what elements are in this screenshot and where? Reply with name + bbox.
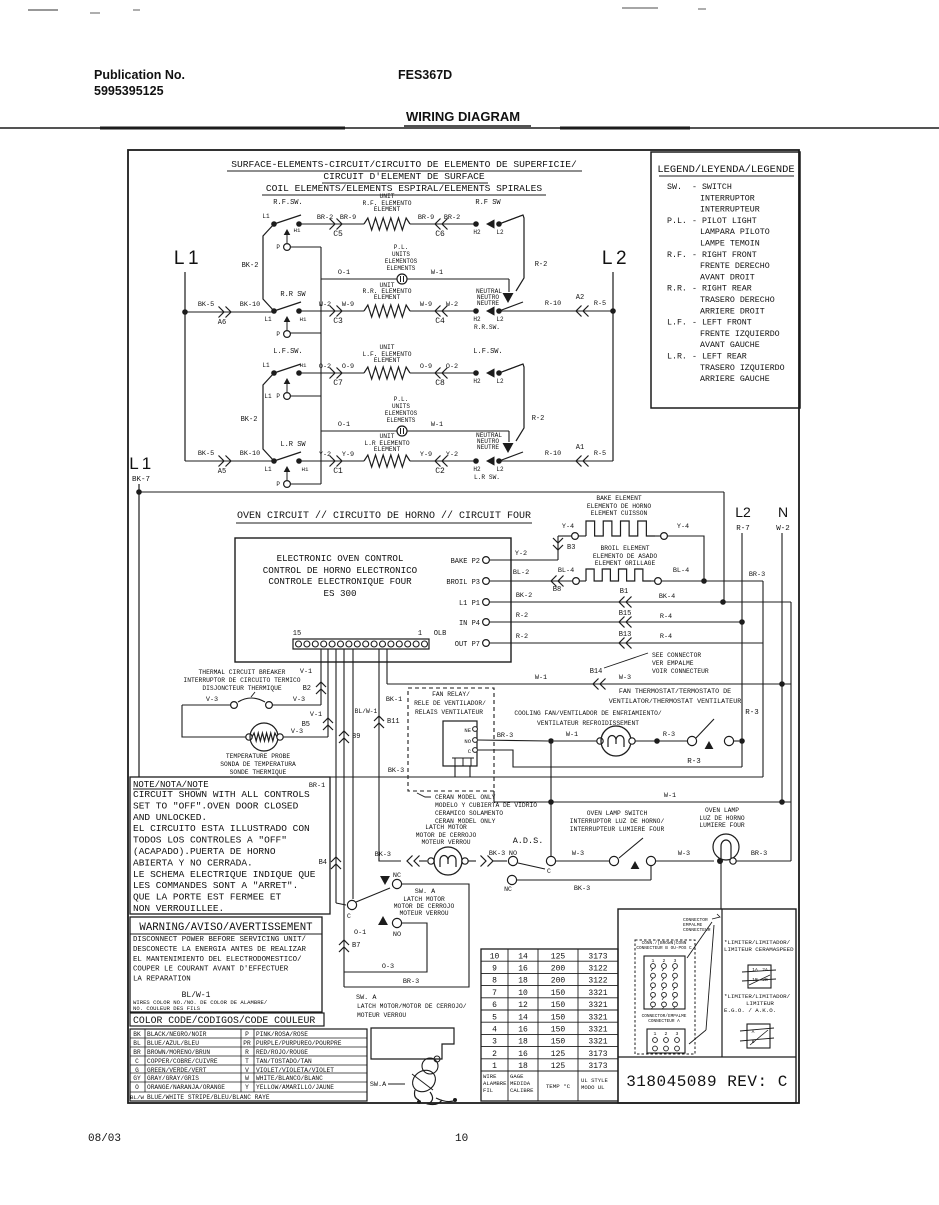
svg-text:ELEMENT: ELEMENT xyxy=(374,446,401,453)
svg-text:L 1: L 1 xyxy=(129,454,151,473)
svg-text:QUE LA PORTE EST FERMEE ET: QUE LA PORTE EST FERMEE ET xyxy=(133,892,282,903)
wire rail N/W-2 (x=782) xyxy=(781,533,783,802)
svg-text:NC: NC xyxy=(393,872,401,880)
wire R-10/R-5 row R.R. xyxy=(499,294,613,317)
svg-text:R-10: R-10 xyxy=(545,450,561,458)
connector B pin block xyxy=(644,956,685,1009)
svg-text:R-5: R-5 xyxy=(594,450,606,458)
wire O-1 to latch switch NO (x=344) xyxy=(339,649,366,987)
svg-text:INTERRUPTOR DE CIRCUITO TERMIC: INTERRUPTOR DE CIRCUITO TERMICO xyxy=(183,677,300,684)
wire Y-9/Y-2 from element L.R. UNIT xyxy=(410,451,476,476)
wire BR-3 lamp to rail xyxy=(736,850,791,861)
svg-text:R-2: R-2 xyxy=(532,415,545,423)
svg-text:R-2: R-2 xyxy=(516,612,528,620)
svg-text:CALIBRE: CALIBRE xyxy=(510,1087,534,1094)
svg-text:BK-3: BK-3 xyxy=(388,767,404,775)
svg-text:R.R.SW.: R.R.SW. xyxy=(474,324,500,331)
svg-text:3321: 3321 xyxy=(588,1026,607,1035)
svg-text:10: 10 xyxy=(455,1133,468,1145)
svg-text:H1: H1 xyxy=(302,466,309,473)
wire W-1/W-3 fan thermostat line (y=684) xyxy=(387,674,791,690)
svg-text:BK-4: BK-4 xyxy=(659,593,675,601)
EOC terminal L1 P1 xyxy=(459,599,489,608)
svg-text:UNIT: UNIT xyxy=(379,344,394,351)
svg-text:R.F.: R.F. xyxy=(667,251,687,260)
wire P to vertical (circuit2) xyxy=(290,395,321,397)
svg-text:C3: C3 xyxy=(333,317,343,326)
junction fan switch / L2 rail xyxy=(739,738,745,744)
svg-text:3173: 3173 xyxy=(588,1050,607,1059)
svg-text:OLB: OLB xyxy=(434,630,447,638)
label latch motor xyxy=(416,824,477,846)
svg-text:B7: B7 xyxy=(352,942,360,950)
svg-text:R-4: R-4 xyxy=(660,633,672,641)
wire V-1 to thermal breaker (x=321) xyxy=(300,649,326,705)
svg-text:ELEMENTS: ELEMENTS xyxy=(387,265,416,272)
svg-text:O-1: O-1 xyxy=(338,269,350,277)
svg-text:B13: B13 xyxy=(619,631,632,639)
svg-text:H1: H1 xyxy=(300,316,307,323)
svg-text:BL-4: BL-4 xyxy=(558,567,574,575)
svg-text:BK-3: BK-3 xyxy=(574,885,590,893)
svg-text:E.G.O. / A.K.O.: E.G.O. / A.K.O. xyxy=(724,1007,776,1014)
junction R-4 / L2 rail xyxy=(739,619,745,625)
svg-text:H1: H1 xyxy=(294,227,301,234)
svg-text:*LIMITER/LIMITADOR/: *LIMITER/LIMITADOR/ xyxy=(724,993,791,1000)
svg-text:C1: C1 xyxy=(333,467,343,476)
svg-text:AVANT DROIT: AVANT DROIT xyxy=(700,273,755,282)
svg-text:LIMITEUR CERAMASPEED: LIMITEUR CERAMASPEED xyxy=(724,946,794,953)
wire BK-2 jog L.F. to L.R. xyxy=(241,373,274,461)
svg-text:200: 200 xyxy=(551,977,566,986)
svg-text:W-3: W-3 xyxy=(572,850,584,858)
terminal L2 / R-7 (mid right) xyxy=(735,504,751,533)
junction W-1 / N rail xyxy=(779,799,785,805)
svg-text:V-3: V-3 xyxy=(206,696,218,704)
svg-text:BK: BK xyxy=(133,1031,141,1038)
color code table xyxy=(130,1029,367,1101)
svg-text:MOTEUR VERROU: MOTEUR VERROU xyxy=(399,910,448,917)
svg-text:MODO UL: MODO UL xyxy=(581,1084,605,1091)
wire O-1 pilot circuit1 xyxy=(321,269,397,279)
svg-text:5995395125: 5995395125 xyxy=(94,84,164,98)
svg-text:V-1: V-1 xyxy=(310,711,322,719)
wire R-10/R-5 row L.R. xyxy=(499,444,613,467)
oven lamp DS1 xyxy=(713,834,739,864)
svg-text:UNIT: UNIT xyxy=(379,433,394,440)
svg-text:C: C xyxy=(347,913,351,920)
junction L1-feed / BK-4 xyxy=(720,599,726,605)
svg-text:OVEN LAMP: OVEN LAMP xyxy=(705,807,739,814)
svg-text:ELECTRONIC OVEN CONTROL: ELECTRONIC OVEN CONTROL xyxy=(277,553,404,564)
oven circuit title xyxy=(236,510,532,523)
svg-text:B15: B15 xyxy=(619,610,632,618)
svg-text:FRENTE IZQUIERDO: FRENTE IZQUIERDO xyxy=(700,330,780,339)
note ceran model only xyxy=(417,793,537,825)
svg-text:TEMP °C: TEMP °C xyxy=(546,1083,571,1090)
A.D.S. switch xyxy=(508,836,555,875)
svg-text:NO. COULEUR DES FILS: NO. COULEUR DES FILS xyxy=(133,1005,201,1012)
svg-text:FAN RELAY/: FAN RELAY/ xyxy=(432,691,470,698)
EOC terminal BROIL P3 xyxy=(446,578,489,587)
svg-text:MODELO Y CUBIERTA DE VIDRIO: MODELO Y CUBIERTA DE VIDRIO xyxy=(435,802,537,809)
svg-text:RELE DE VENTILADOR/: RELE DE VENTILADOR/ xyxy=(414,700,486,707)
svg-text:3173: 3173 xyxy=(588,952,607,961)
svg-text:BL-2: BL-2 xyxy=(513,569,529,577)
pilot light P.L. circuit1 xyxy=(397,274,407,284)
svg-text:BL-4: BL-4 xyxy=(673,567,689,575)
svg-text:ELEMENT CUISSON: ELEMENT CUISSON xyxy=(591,510,648,517)
svg-text:ARRIERE DROIT: ARRIERE DROIT xyxy=(700,307,765,316)
svg-text:ORANGE/NARANJA/ORANGE: ORANGE/NARANJA/ORANGE xyxy=(147,1084,225,1091)
wire W-2/W-9 to element R.R. UNIT row y=311 xyxy=(299,301,364,326)
connector detail box xyxy=(618,909,796,1103)
svg-text:W-3: W-3 xyxy=(678,850,690,858)
wire BR-2/BR-9 to element R.F. UNIT row y=224 xyxy=(299,214,364,239)
switch R.R SW (left) xyxy=(271,291,306,338)
junction fan line / W-1 drop xyxy=(548,738,554,744)
svg-text:6: 6 xyxy=(492,1001,497,1010)
svg-text:150: 150 xyxy=(551,1026,566,1035)
svg-text:150: 150 xyxy=(551,989,566,998)
A.D.S. NC contact xyxy=(504,875,517,893)
svg-text:TRASERO IZQUIERDO: TRASERO IZQUIERDO xyxy=(700,364,785,373)
svg-text:PURPLE/PURPUREO/POURPRE: PURPLE/PURPUREO/POURPRE xyxy=(256,1040,342,1047)
element R.R. UNIT (resistor) xyxy=(364,305,410,317)
svg-text:BLUE/WHITE STRIPE/BLEU/BLANC R: BLUE/WHITE STRIPE/BLEU/BLANC RAYE xyxy=(147,1094,270,1101)
wire L1 feed to EOC (y=492) xyxy=(139,491,724,493)
svg-text:Y-2: Y-2 xyxy=(319,451,331,459)
wire BK-5/BK-10 row2 feed (L.R.) xyxy=(185,450,274,476)
svg-text:BK-3: BK-3 xyxy=(489,850,505,858)
svg-text:MOTOR DE CERROJO: MOTOR DE CERROJO xyxy=(416,832,477,839)
terminal L1 lower (BK-7) xyxy=(129,454,151,484)
svg-text:L 1: L 1 xyxy=(174,248,198,269)
junction bake/broil node xyxy=(701,578,707,584)
svg-text:CONTROLE ELECTRONIQUE FOUR: CONTROLE ELECTRONIQUE FOUR xyxy=(268,576,412,587)
svg-text:YELLOW/AMARILLO/JAUNE: YELLOW/AMARILLO/JAUNE xyxy=(256,1084,334,1091)
svg-text:L1: L1 xyxy=(264,466,272,473)
junction L1 rail / top feed xyxy=(136,489,142,495)
svg-text:B8: B8 xyxy=(553,586,561,594)
svg-text:H2: H2 xyxy=(473,316,481,323)
svg-text:BL/W-1: BL/W-1 xyxy=(355,708,378,715)
svg-text:W-9: W-9 xyxy=(342,301,354,309)
svg-text:TODOS LOS CONTROLES A "OFF": TODOS LOS CONTROLES A "OFF" xyxy=(133,835,287,846)
svg-text:UNITS: UNITS xyxy=(392,251,410,258)
wire Y-2 from BAKE P2 xyxy=(489,536,558,560)
svg-text:200: 200 xyxy=(551,965,566,974)
warning box xyxy=(130,917,322,1012)
wire relay coil pins to BK-3 xyxy=(455,766,470,777)
element R.F. UNIT (resistor) xyxy=(364,218,410,230)
label L1 H1 row LF xyxy=(262,362,307,369)
svg-text:UNIT: UNIT xyxy=(379,193,394,200)
svg-text:UL STYLE: UL STYLE xyxy=(581,1077,608,1084)
svg-text:LATCH MOTOR: LATCH MOTOR xyxy=(403,896,445,903)
wire BR-3 NC loop xyxy=(344,884,469,987)
svg-text:TRASERO DERECHO: TRASERO DERECHO xyxy=(700,296,775,305)
svg-text:Y-9: Y-9 xyxy=(420,451,432,459)
svg-text:OVEN LAMP SWITCH: OVEN LAMP SWITCH xyxy=(587,810,648,817)
svg-text:BK-2: BK-2 xyxy=(241,416,258,424)
svg-text:Y-4: Y-4 xyxy=(562,523,574,531)
wire W-1 to fan motor xyxy=(554,731,597,741)
svg-text:ES 300: ES 300 xyxy=(323,588,356,599)
svg-text:*LIMITER/LIMITADOR/: *LIMITER/LIMITADOR/ xyxy=(724,939,791,946)
svg-text:H2: H2 xyxy=(473,378,481,385)
label bake element xyxy=(587,495,651,517)
svg-text:P: P xyxy=(276,331,280,338)
connector pointer lines xyxy=(687,922,714,1044)
svg-text:16: 16 xyxy=(518,1026,528,1035)
svg-text:AND UNLOCKED.: AND UNLOCKED. xyxy=(133,812,207,823)
svg-text:UNITS: UNITS xyxy=(392,403,410,410)
wire lamp to connector box xyxy=(720,861,722,909)
svg-text:L2: L2 xyxy=(496,378,504,385)
svg-text:MEDIDA: MEDIDA xyxy=(510,1080,531,1087)
label L1 H1 row LR xyxy=(264,466,309,473)
svg-text:R.R.: R.R. xyxy=(667,285,687,294)
main diagram border xyxy=(128,150,799,1103)
svg-text:ABIERTA Y NO CERRADA.: ABIERTA Y NO CERRADA. xyxy=(133,857,253,868)
svg-text:LATCH MOTOR: LATCH MOTOR xyxy=(425,824,467,831)
svg-text:ELEMENT: ELEMENT xyxy=(374,357,401,364)
svg-text:V-3: V-3 xyxy=(291,728,303,736)
svg-text:W-2: W-2 xyxy=(776,525,790,533)
note box xyxy=(130,777,330,914)
svg-text:WHITE/BLANCO/BLANC: WHITE/BLANCO/BLANC xyxy=(256,1075,323,1082)
svg-text:BR-2: BR-2 xyxy=(317,214,333,222)
svg-text:R.R SW: R.R SW xyxy=(280,291,306,299)
svg-text:W: W xyxy=(245,1075,249,1082)
svg-text:THERMAL CIRCUIT BREAKER: THERMAL CIRCUIT BREAKER xyxy=(199,669,286,676)
svg-text:P: P xyxy=(276,481,280,488)
svg-text:CERAN MODEL ONLY: CERAN MODEL ONLY xyxy=(435,794,496,801)
svg-text:AVANT GAUCHE: AVANT GAUCHE xyxy=(700,341,760,350)
svg-text:B14: B14 xyxy=(590,668,603,676)
svg-text:5: 5 xyxy=(492,1013,497,1022)
svg-text:BR-3: BR-3 xyxy=(751,850,767,858)
svg-text:DESCONECTE LA ENERGIA ANTES DE: DESCONECTE LA ENERGIA ANTES DE REALIZAR xyxy=(133,946,307,954)
svg-text:B4: B4 xyxy=(319,859,327,867)
label limiter ceramaspeed xyxy=(724,939,794,953)
element L.F. UNIT (resistor) xyxy=(364,367,410,379)
svg-text:NON VERROUILLEE.: NON VERROUILLEE. xyxy=(133,903,224,914)
svg-text:ELEMENTO DE HORNO: ELEMENTO DE HORNO xyxy=(587,503,651,510)
svg-text:Y-9: Y-9 xyxy=(342,451,354,459)
svg-text:SW. A: SW. A xyxy=(415,888,436,896)
svg-text:Publication No.: Publication No. xyxy=(94,68,185,82)
svg-text:GAGE: GAGE xyxy=(510,1073,524,1080)
svg-text:NEUTRE: NEUTRE xyxy=(477,444,500,451)
svg-text:B2: B2 xyxy=(303,685,311,693)
latch motor M2 xyxy=(428,847,468,875)
svg-text:W-3: W-3 xyxy=(619,674,631,682)
svg-text:IN P4: IN P4 xyxy=(459,620,480,628)
wire BR-3 relay NO to fan line xyxy=(478,732,548,741)
svg-text:OUT P7: OUT P7 xyxy=(455,641,480,649)
svg-text:- PILOT LIGHT: - PILOT LIGHT xyxy=(692,217,757,226)
svg-text:R-4: R-4 xyxy=(660,613,672,621)
svg-text:O-2: O-2 xyxy=(319,363,331,371)
label L1 H1 row RR xyxy=(264,316,307,323)
svg-text:INTERRUPTEUR: INTERRUPTEUR xyxy=(700,206,760,215)
svg-text:O-9: O-9 xyxy=(420,363,432,371)
svg-text:3122: 3122 xyxy=(588,977,607,986)
svg-text:C5: C5 xyxy=(333,230,343,239)
svg-text:B: B xyxy=(752,1039,755,1045)
svg-text:L2: L2 xyxy=(496,316,504,323)
svg-text:P: P xyxy=(245,1031,249,1038)
svg-text:16: 16 xyxy=(518,965,528,974)
wire R-2/R-4 from OUT P7 xyxy=(489,631,763,649)
svg-text:LATCH MOTOR/MOTOR DE CERROJO/: LATCH MOTOR/MOTOR DE CERROJO/ xyxy=(357,1003,467,1010)
svg-text:3321: 3321 xyxy=(588,1001,607,1010)
svg-text:LA REPARATION: LA REPARATION xyxy=(133,976,191,984)
svg-text:L.F.SW.: L.F.SW. xyxy=(473,348,502,356)
wire BK-2/BK-4 from L1 P1 xyxy=(489,588,791,608)
svg-text:10: 10 xyxy=(518,989,528,998)
svg-text:A1: A1 xyxy=(576,444,584,452)
svg-text:G: G xyxy=(135,1067,139,1074)
wire O-9/O-2 from element L.F. UNIT xyxy=(410,363,476,388)
label broil element xyxy=(593,545,657,567)
svg-text:R-3: R-3 xyxy=(745,709,759,717)
svg-text:WARNING/AVISO/AVERTISSEMENT: WARNING/AVISO/AVERTISSEMENT xyxy=(139,922,313,934)
svg-text:L.R.: L.R. xyxy=(667,353,687,362)
wire BR-9/BR-2 from element R.F. UNIT xyxy=(410,214,476,239)
svg-text:125: 125 xyxy=(551,952,566,961)
wire BR-1/BK-3 (y=777) xyxy=(130,767,763,777)
svg-text:R-2: R-2 xyxy=(535,261,548,269)
svg-text:2: 2 xyxy=(665,1031,668,1037)
svg-text:CONNECTEUR B OU-POS C: CONNECTEUR B OU-POS C xyxy=(636,946,692,951)
svg-text:R-3: R-3 xyxy=(663,731,675,739)
latch cam mechanism outline xyxy=(371,1028,454,1059)
switch L.F.SW. (left) xyxy=(271,348,303,400)
junction rail/row R.R. xyxy=(610,308,616,314)
svg-text:BROIL ELEMENT: BROIL ELEMENT xyxy=(600,545,649,552)
junction W-1/lamp feed drop xyxy=(548,799,554,805)
svg-text:SONDA DE TEMPERATURA: SONDA DE TEMPERATURA xyxy=(220,761,296,768)
svg-text:SONDE THERMIQUE: SONDE THERMIQUE xyxy=(230,769,287,776)
svg-text:W-1: W-1 xyxy=(431,269,443,277)
label connector A xyxy=(642,1014,687,1024)
wire BK-5/BK-10 row1 feed xyxy=(185,301,274,327)
switch R.F SW (right) xyxy=(473,199,523,236)
wire rail L2/R-7 (x=742) xyxy=(741,533,743,767)
neutral arrow circuit1 xyxy=(476,288,514,307)
label P.L. UNITS circuit1 xyxy=(385,244,418,272)
temperature probe RT1 xyxy=(220,723,328,776)
svg-text:P.L.: P.L. xyxy=(394,396,408,403)
wire P to vertical (circuit1 top) xyxy=(290,246,321,248)
EOC terminal BAKE P2 xyxy=(451,557,490,566)
wire BK-3 to latch motor xyxy=(375,851,427,867)
svg-text:BR-9: BR-9 xyxy=(418,214,434,222)
svg-text:C6: C6 xyxy=(435,230,445,239)
switch L.F.SW. (right) xyxy=(473,348,523,385)
svg-text:R-5: R-5 xyxy=(594,300,606,308)
svg-text:INTERRUPTEUR LUMIERE FOUR: INTERRUPTEUR LUMIERE FOUR xyxy=(570,826,665,833)
junction W-3 / N rail xyxy=(779,681,785,687)
svg-text:GRAY/GRAY/GRIS: GRAY/GRAY/GRIS xyxy=(147,1075,199,1082)
wire to latch switch C (x=336) xyxy=(319,649,346,905)
wire right rail L2 (x=613) xyxy=(612,272,614,461)
wire Y-2/Y-9 to element L.R. UNIT row y=461 xyxy=(299,451,364,476)
svg-text:LEGEND/LEYENDA/LEGENDE: LEGEND/LEYENDA/LEGENDE xyxy=(657,164,794,176)
svg-text:BAKE P2: BAKE P2 xyxy=(451,558,480,566)
svg-text:W-1: W-1 xyxy=(566,731,578,739)
svg-text:1: 1 xyxy=(492,1062,497,1071)
svg-text:CONNECTEUR A: CONNECTEUR A xyxy=(648,1019,680,1024)
svg-text:2A: 2A xyxy=(762,967,768,973)
svg-text:- LEFT FRONT: - LEFT FRONT xyxy=(692,319,752,328)
wire R-2 right rail circuit1 xyxy=(499,215,547,291)
svg-text:B3: B3 xyxy=(567,544,575,552)
svg-text:BLUE/AZUL/BLEU: BLUE/AZUL/BLEU xyxy=(147,1040,199,1047)
wire O-3 NO loop xyxy=(344,923,427,972)
svg-text:BR-9: BR-9 xyxy=(340,214,356,222)
svg-text:W-9: W-9 xyxy=(420,301,432,309)
svg-text:LAMPARA PILOTO: LAMPARA PILOTO xyxy=(700,228,770,237)
switch L.R SW (left) xyxy=(271,441,306,488)
wire W-1 feed to fan thermostat (x=387) xyxy=(386,649,388,684)
svg-text:BK-5: BK-5 xyxy=(198,301,214,309)
svg-text:L.F.: L.F. xyxy=(667,319,687,328)
svg-text:LUMIERE FOUR: LUMIERE FOUR xyxy=(699,822,745,829)
svg-text:R.F SW: R.F SW xyxy=(475,199,501,207)
svg-text:1: 1 xyxy=(654,1031,657,1037)
svg-text:14: 14 xyxy=(518,1013,528,1022)
svg-text:L2: L2 xyxy=(496,466,504,473)
svg-text:L1: L1 xyxy=(264,316,272,323)
broil element (square-wave) xyxy=(558,567,689,584)
svg-text:18: 18 xyxy=(518,977,528,986)
connector A pin block xyxy=(647,1029,685,1053)
svg-text:O-1: O-1 xyxy=(338,421,350,429)
svg-text:MOTEUR VERROU: MOTEUR VERROU xyxy=(421,839,470,846)
svg-text:L2: L2 xyxy=(735,504,751,520)
svg-text:SEE CONNECTOR: SEE CONNECTOR xyxy=(652,652,701,659)
svg-text:TEMPERATURE PROBE: TEMPERATURE PROBE xyxy=(226,753,290,760)
EOC terminal OUT P7 xyxy=(455,640,490,649)
label cooling fan xyxy=(514,710,662,727)
svg-text:BR-1: BR-1 xyxy=(309,782,325,790)
note text xyxy=(133,789,316,914)
svg-text:COIL ELEMENTS/ELEMENTS ESPIRAL: COIL ELEMENTS/ELEMENTS ESPIRAL/ELEMENTS … xyxy=(266,183,543,194)
svg-text:H2: H2 xyxy=(473,229,481,236)
wire BL/W-3 to latch switch (x=353) xyxy=(353,649,378,899)
svg-text:ALAMBRE: ALAMBRE xyxy=(483,1080,507,1087)
svg-text:INTERRUPTOR LUZ DE HORNO/: INTERRUPTOR LUZ DE HORNO/ xyxy=(570,818,665,825)
svg-text:RED/ROJO/ROUGE: RED/ROJO/ROUGE xyxy=(256,1049,308,1056)
svg-text:C2: C2 xyxy=(435,467,445,476)
note SEE CONNECTOR xyxy=(590,652,709,676)
wire R-2/R-4 from IN P4 xyxy=(489,610,742,628)
svg-text:L.R SW: L.R SW xyxy=(280,441,306,449)
svg-text:A: A xyxy=(752,1029,755,1035)
svg-text:SW.: SW. xyxy=(667,183,682,192)
svg-text:L.R SW.: L.R SW. xyxy=(474,474,500,481)
svg-text:2: 2 xyxy=(492,1050,497,1059)
svg-text:R-2: R-2 xyxy=(516,633,528,641)
svg-text:1A: 1A xyxy=(752,967,758,973)
svg-text:V-1: V-1 xyxy=(300,668,312,676)
svg-text:08/03: 08/03 xyxy=(88,1133,121,1145)
svg-text:N: N xyxy=(778,504,788,520)
